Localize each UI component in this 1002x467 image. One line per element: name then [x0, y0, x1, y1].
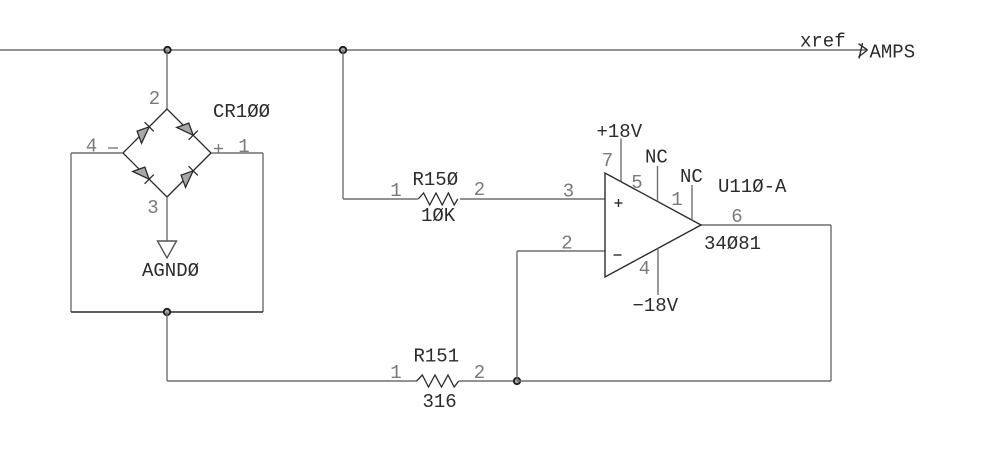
- diode D-topleft (anode left vertex, cathode top vertex): [137, 122, 154, 143]
- svg-text:xref: xref: [800, 31, 846, 53]
- wire op-amp output horizontal: [701, 224, 831, 226]
- pin 4 stub (V-): [657, 248, 659, 295]
- wire feedback node up to inverting input: [516, 251, 518, 381]
- svg-text:−18V: −18V: [633, 295, 679, 317]
- svg-text:2: 2: [474, 179, 485, 201]
- wire bridge pin 4 to box left: [71, 152, 123, 154]
- op-amp plus input mark: [615, 199, 623, 207]
- plus polarity mark (bridge right): [214, 144, 223, 153]
- junction dot at top wire / bridge column: [164, 47, 170, 53]
- pin 5 stub (NC): [657, 166, 659, 202]
- wire R151 pin 2 to feedback junction: [459, 380, 517, 382]
- svg-text:3: 3: [563, 181, 574, 203]
- pin 7 stub (V+): [620, 139, 622, 182]
- svg-text:U11Ø-A: U11Ø-A: [718, 176, 787, 198]
- diode D-topright (anode top vertex, cathode right vertex): [177, 123, 198, 140]
- svg-text:NC: NC: [645, 147, 668, 169]
- off-page connector arrow to AMPS: [859, 43, 868, 59]
- junction dot at top wire / R150 column: [340, 47, 346, 53]
- svg-text:+18V: +18V: [597, 121, 643, 143]
- resistor R151: [417, 375, 459, 387]
- wire from box bottom junction down: [166, 312, 168, 381]
- svg-text:1: 1: [238, 136, 249, 158]
- svg-text:AGNDØ: AGNDØ: [142, 260, 199, 282]
- wire to op-amp pin 2: [517, 250, 605, 252]
- wire feedback node to output column: [517, 380, 831, 382]
- wire R150 pin1 lead: [343, 198, 418, 200]
- wire output column vertical: [830, 225, 832, 381]
- svg-text:1: 1: [671, 189, 682, 211]
- diode D-bottomright (anode bottom vertex, cathode right vertex): [181, 166, 198, 187]
- svg-text:4: 4: [639, 258, 650, 280]
- svg-text:316: 316: [423, 391, 457, 413]
- diode D-bottomleft (anode left vertex, cathode bottom vertex): [133, 167, 154, 184]
- wire bridge pin 1 to box right: [211, 152, 263, 154]
- junction dot at box bottom: [164, 309, 170, 315]
- svg-text:3: 3: [147, 197, 158, 219]
- pin 1 stub (NC): [691, 185, 693, 220]
- diode bridge CR100: [123, 109, 211, 197]
- wire top net horizontal: [0, 49, 866, 51]
- op-amp U110-A triangle: [605, 173, 701, 277]
- wire box right vertical: [262, 153, 264, 312]
- svg-text:1: 1: [390, 362, 401, 384]
- svg-text:AMPS: AMPS: [870, 42, 916, 64]
- svg-text:6: 6: [731, 206, 742, 228]
- svg-text:34Ø81: 34Ø81: [704, 233, 761, 255]
- op-amp minus input mark: [614, 254, 622, 256]
- wire R150 pin 2 to op-amp pin 3: [460, 198, 605, 200]
- svg-text:R151: R151: [414, 346, 460, 368]
- svg-text:NC: NC: [680, 166, 703, 188]
- wire to R151 pin 1: [167, 380, 417, 382]
- wire box left vertical: [70, 153, 72, 312]
- junction dot feedback node: [514, 378, 520, 384]
- svg-text:CR1ØØ: CR1ØØ: [213, 101, 270, 123]
- svg-text:1ØK: 1ØK: [421, 205, 456, 227]
- svg-text:R15Ø: R15Ø: [413, 169, 459, 191]
- svg-text:2: 2: [561, 233, 572, 255]
- wire from top net down to bridge pin 2: [166, 50, 168, 109]
- wire from top net down to R150 pin 1: [342, 50, 344, 199]
- svg-text:2: 2: [149, 88, 160, 110]
- svg-text:4: 4: [86, 136, 97, 158]
- minus polarity mark (bridge left): [108, 147, 118, 149]
- ground symbol AGND0: [158, 241, 177, 258]
- svg-text:5: 5: [631, 172, 642, 194]
- resistor R150: [418, 193, 458, 205]
- svg-text:1: 1: [390, 180, 401, 202]
- wire box bottom horizontal: [71, 311, 263, 313]
- svg-text:7: 7: [602, 150, 613, 172]
- wire bridge pin 3 to AGND0: [166, 197, 168, 241]
